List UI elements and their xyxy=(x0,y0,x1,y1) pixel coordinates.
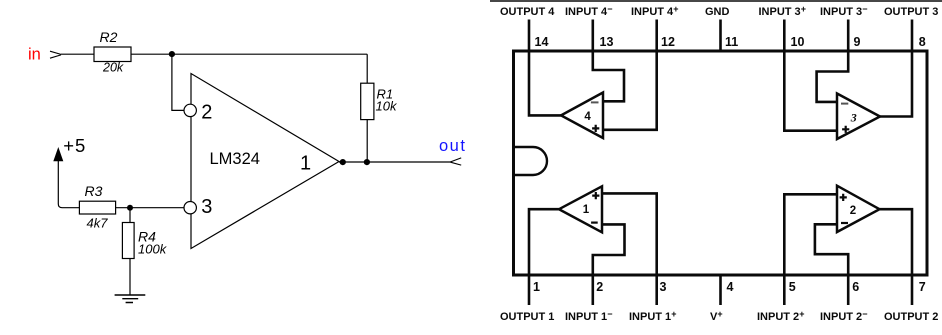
resistor R3 xyxy=(79,201,115,214)
svg-text:INPUT 2+: INPUT 2+ xyxy=(757,309,804,323)
svg-text:INPUT 4−: INPUT 4− xyxy=(565,4,612,18)
op-amp 2 triangle xyxy=(837,186,880,232)
pin 7 stub xyxy=(911,275,914,305)
svg-text:8: 8 xyxy=(919,35,926,49)
op-amp 4 minus xyxy=(591,101,599,103)
svg-text:INPUT 1−: INPUT 1− xyxy=(565,309,612,323)
op-amp 4 plus xyxy=(592,125,599,132)
svg-text:7: 7 xyxy=(919,280,926,294)
svg-text:5: 5 xyxy=(789,280,796,294)
svg-text:2: 2 xyxy=(201,102,212,124)
resistor R1 xyxy=(361,83,374,119)
junction node at op-amp output xyxy=(340,159,346,165)
svg-text:R2: R2 xyxy=(100,29,118,45)
op-amp 1 plus xyxy=(592,192,599,199)
pin 6 stub xyxy=(847,275,850,305)
svg-text:V+: V+ xyxy=(710,309,723,323)
op-amp U1 triangle xyxy=(191,74,339,249)
svg-text:INPUT 2−: INPUT 2− xyxy=(820,309,867,323)
wire output to out terminal xyxy=(339,161,451,163)
svg-text:GND: GND xyxy=(705,6,730,18)
+5 supply arrow xyxy=(53,147,63,161)
resistor R2 xyxy=(94,47,131,62)
package notch xyxy=(515,147,547,175)
pin 4 stub V+ xyxy=(719,275,722,305)
junction node at R2 output xyxy=(169,51,175,57)
svg-text:1: 1 xyxy=(300,152,311,174)
svg-text:3: 3 xyxy=(201,196,212,218)
svg-text:+5: +5 xyxy=(63,135,86,156)
svg-text:6: 6 xyxy=(852,280,859,294)
svg-text:INPUT 4+: INPUT 4+ xyxy=(631,4,678,18)
op-amp 1 inverting wire pin2 xyxy=(593,224,625,275)
top border line xyxy=(490,0,942,2)
op-amp 1 minus xyxy=(591,222,598,224)
svg-text:1: 1 xyxy=(533,280,540,294)
svg-text:4k7: 4k7 xyxy=(87,216,109,231)
pin 2 inverting input circle xyxy=(184,104,196,116)
op-amp 3 output wire pin8 xyxy=(880,51,912,117)
wire +5 down to R3 xyxy=(58,155,79,208)
svg-text:LM324: LM324 xyxy=(210,150,260,168)
wire R1 bottom vertical xyxy=(366,120,368,162)
op-amp 3 inverting wire pin9 xyxy=(817,51,849,102)
IC package outline xyxy=(514,51,928,275)
pin 12 stub xyxy=(655,20,658,52)
pin 5 stub xyxy=(783,275,786,305)
resistor R4 xyxy=(122,223,134,259)
op-amp 4 non-inverting wire pin12 xyxy=(603,51,657,130)
svg-text:100k: 100k xyxy=(138,241,168,256)
wire R2 to R1 top xyxy=(131,53,367,55)
wire R1 top vertical xyxy=(366,54,368,83)
svg-text:INPUT 1+: INPUT 1+ xyxy=(629,309,676,323)
pin 10 stub xyxy=(783,20,786,52)
wire junction to R4 xyxy=(129,208,131,223)
svg-text:out: out xyxy=(439,137,466,155)
svg-text:14: 14 xyxy=(535,35,549,49)
op-amp 3 minus xyxy=(841,103,848,105)
op-amp 4 triangle xyxy=(561,93,603,139)
op-amp 2 minus xyxy=(841,222,848,224)
svg-text:10k: 10k xyxy=(376,98,398,113)
svg-text:R3: R3 xyxy=(85,183,103,199)
op-amp 1 triangle xyxy=(559,186,602,232)
svg-text:INPUT 3−: INPUT 3− xyxy=(820,4,867,18)
svg-text:9: 9 xyxy=(854,35,861,49)
op-amp 1 output wire pin1 xyxy=(529,209,559,275)
svg-text:20k: 20k xyxy=(102,61,124,75)
op-amp 3 non-inverting wire pin10 xyxy=(784,51,837,131)
svg-text:11: 11 xyxy=(725,35,738,49)
pin 3 stub xyxy=(655,275,658,305)
svg-text:4: 4 xyxy=(584,111,591,123)
svg-text:1: 1 xyxy=(583,204,590,216)
op-amp 2 inverting wire pin6 xyxy=(815,224,848,275)
svg-text:3: 3 xyxy=(850,111,857,125)
wire R3 to pin3 xyxy=(116,207,185,209)
svg-text:INPUT 3+: INPUT 3+ xyxy=(759,4,806,18)
op-amp 1 non-inverting wire pin3 xyxy=(602,193,657,275)
wire R4 to ground xyxy=(129,259,131,296)
pin 13 stub xyxy=(591,20,594,52)
svg-text:OUTPUT 3: OUTPUT 3 xyxy=(884,6,938,18)
op-amp 4 output wire pin14 xyxy=(529,51,561,115)
svg-text:2: 2 xyxy=(596,280,603,294)
svg-text:OUTPUT 1: OUTPUT 1 xyxy=(500,311,554,323)
wire junction down to pin2 xyxy=(172,54,184,110)
op-amp 3 triangle xyxy=(837,94,880,140)
pin 8 stub xyxy=(911,20,914,52)
junction node R3 R4 xyxy=(127,205,133,211)
pin 2 stub xyxy=(591,275,594,305)
op-amp 2 plus xyxy=(840,194,847,201)
svg-text:OUTPUT 4: OUTPUT 4 xyxy=(500,6,555,18)
input terminal in xyxy=(50,51,61,58)
svg-text:10: 10 xyxy=(791,35,805,49)
svg-text:2: 2 xyxy=(850,205,856,217)
svg-text:OUTPUT 2: OUTPUT 2 xyxy=(884,311,938,323)
junction node at R1 bottom xyxy=(364,159,370,165)
output terminal out xyxy=(451,158,462,165)
op-amp 3 plus xyxy=(842,126,849,133)
op-amp 4 inverting wire pin13 xyxy=(593,51,624,101)
pin 14 stub xyxy=(528,20,531,52)
pin 3 non-inverting input circle xyxy=(184,202,196,214)
op-amp 2 output wire pin7 xyxy=(880,209,913,275)
svg-text:12: 12 xyxy=(661,35,675,49)
svg-text:13: 13 xyxy=(600,35,614,49)
wire input to R2 xyxy=(61,53,94,55)
pin 9 stub xyxy=(847,20,850,52)
ground xyxy=(115,295,146,303)
op-amp 2 non-inverting wire pin5 xyxy=(784,194,837,275)
svg-text:in: in xyxy=(28,46,41,64)
pin 1 stub xyxy=(528,275,531,305)
pin 11 stub GND xyxy=(719,20,722,52)
svg-text:4: 4 xyxy=(727,280,734,294)
svg-text:3: 3 xyxy=(660,280,667,294)
